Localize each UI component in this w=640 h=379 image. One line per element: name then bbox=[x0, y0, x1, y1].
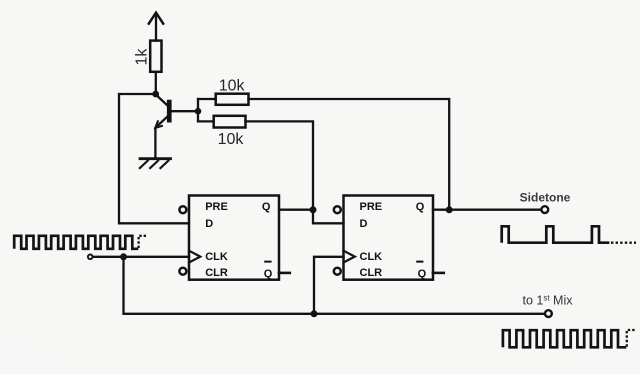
svg-text:Q: Q bbox=[264, 268, 273, 280]
svg-text:D: D bbox=[360, 218, 368, 230]
svg-text:10k: 10k bbox=[219, 77, 246, 94]
svg-text:Sidetone: Sidetone bbox=[520, 190, 571, 204]
svg-text:Q: Q bbox=[418, 268, 427, 280]
svg-text:CLK: CLK bbox=[360, 251, 383, 263]
svg-text:to 1st Mix: to 1st Mix bbox=[522, 293, 573, 307]
svg-text:CLR: CLR bbox=[360, 267, 383, 279]
svg-text:1k: 1k bbox=[133, 48, 150, 66]
svg-text:CLK: CLK bbox=[205, 251, 228, 263]
svg-text:Q: Q bbox=[262, 201, 271, 213]
svg-text:D: D bbox=[205, 218, 213, 230]
svg-text:Q: Q bbox=[416, 201, 425, 213]
svg-text:PRE: PRE bbox=[205, 201, 228, 213]
svg-text:PRE: PRE bbox=[360, 201, 383, 213]
svg-text:CLR: CLR bbox=[205, 267, 228, 279]
svg-text:10k: 10k bbox=[218, 131, 245, 148]
